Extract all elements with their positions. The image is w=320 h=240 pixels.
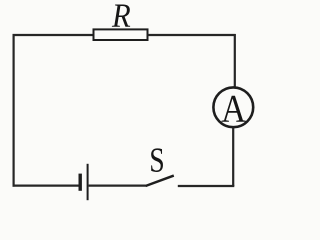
wire bottom-left segment: [13, 185, 79, 187]
wire right lower segment: [232, 128, 234, 186]
switch S blade: [146, 176, 174, 186]
battery cell positive plate: [87, 164, 89, 200]
wire battery-to-switch segment: [89, 185, 146, 187]
wire bottom-right segment: [178, 185, 235, 187]
label S: [151, 148, 163, 172]
wire top-right segment: [148, 34, 236, 36]
label A: [222, 96, 246, 122]
wire right upper segment: [234, 34, 236, 88]
label R: [112, 5, 130, 27]
ammeter A body: [213, 87, 253, 127]
wire left side: [13, 34, 15, 187]
wire top-left segment: [13, 34, 94, 36]
resistor R: [94, 29, 148, 40]
battery cell negative plate: [78, 174, 81, 191]
